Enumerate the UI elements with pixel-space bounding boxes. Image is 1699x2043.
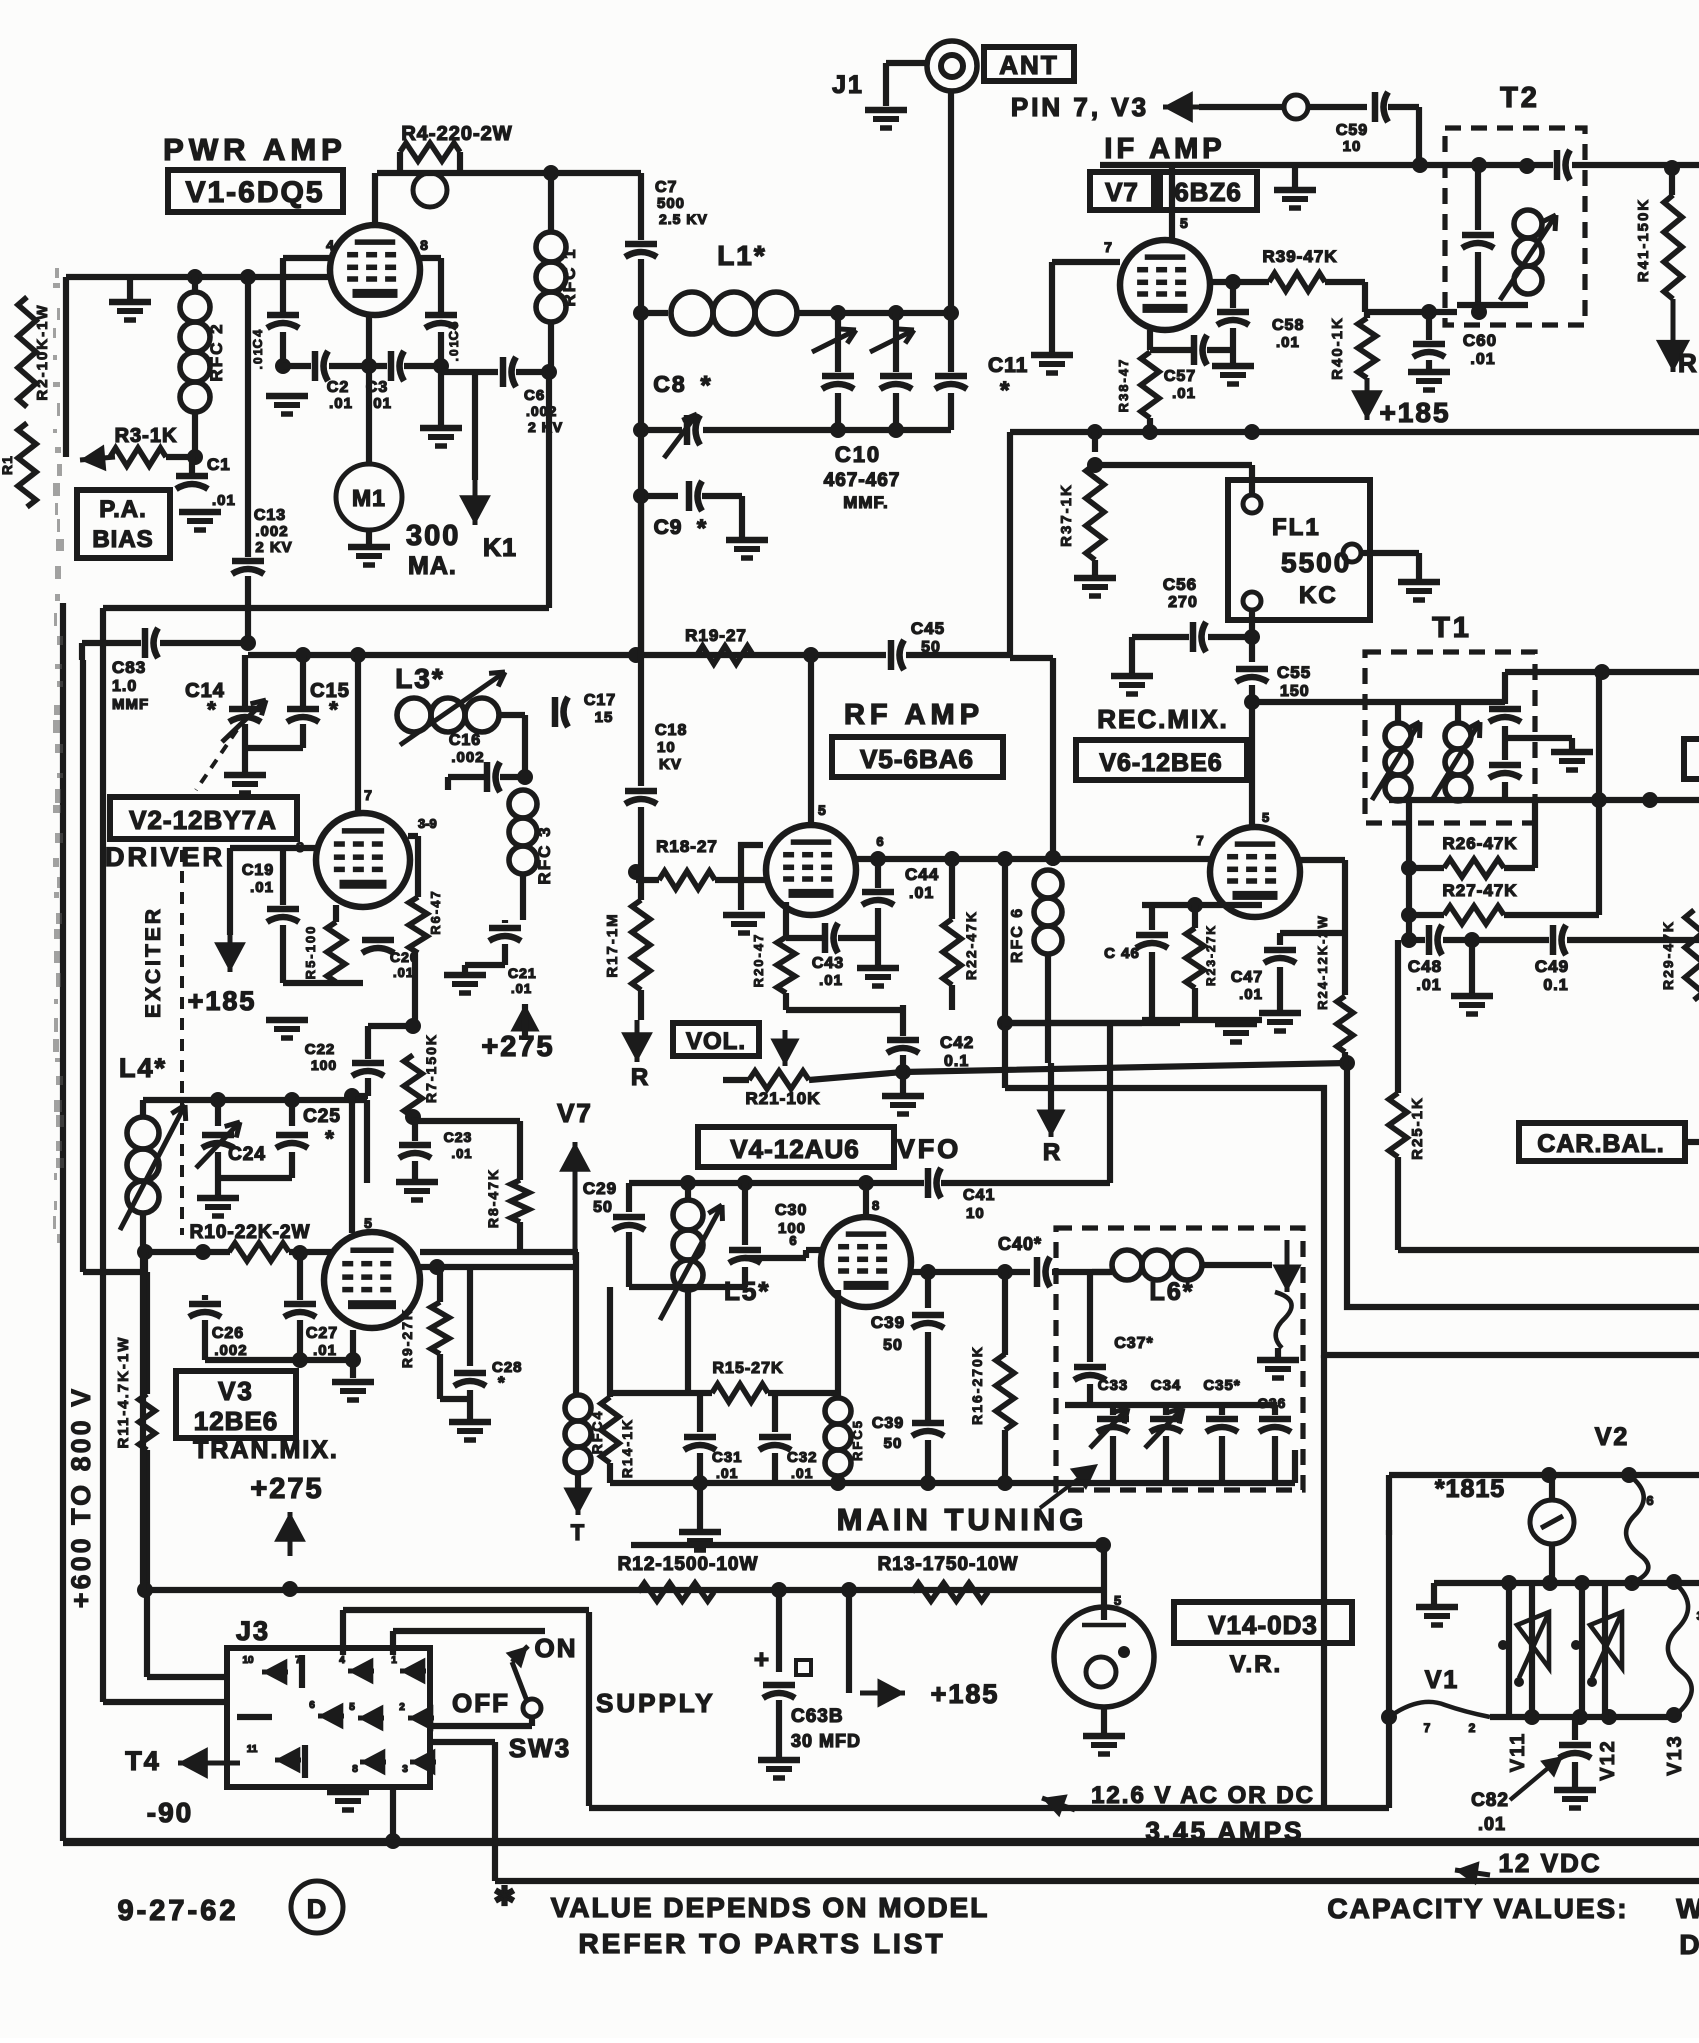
- svg-text:L1*: L1*: [717, 240, 767, 271]
- svg-text:V14-0D3: V14-0D3: [1208, 1610, 1318, 1640]
- svg-text:R14-1K: R14-1K: [619, 1418, 635, 1478]
- svg-text:*: *: [1000, 377, 1010, 404]
- svg-text:V11: V11: [1507, 1732, 1529, 1772]
- svg-text:C30: C30: [775, 1202, 807, 1219]
- svg-text:R11-4.7K-1W: R11-4.7K-1W: [115, 1336, 132, 1449]
- svg-text:VFO: VFO: [897, 1134, 962, 1164]
- svg-text:R10-22K-2W: R10-22K-2W: [190, 1222, 311, 1243]
- svg-text:ANT: ANT: [999, 50, 1058, 80]
- svg-text:9-27-62: 9-27-62: [118, 1895, 239, 1927]
- svg-text:C26: C26: [212, 1325, 244, 1342]
- svg-text:.01: .01: [1478, 1814, 1506, 1834]
- svg-text:R27-47K: R27-47K: [1442, 881, 1517, 900]
- svg-text:C48: C48: [1408, 957, 1442, 976]
- svg-text:.01: .01: [212, 492, 236, 509]
- svg-text:R24-12K-2W: R24-12K-2W: [1315, 914, 1330, 1010]
- svg-text:C5: C5: [446, 320, 461, 341]
- svg-text:.01: .01: [250, 879, 274, 896]
- svg-text:IF AMP: IF AMP: [1104, 133, 1225, 165]
- svg-text:C44: C44: [905, 865, 939, 884]
- svg-text:TRAN.MIX.: TRAN.MIX.: [193, 1436, 339, 1464]
- svg-text:K1: K1: [483, 534, 517, 562]
- svg-text:V4-12AU6: V4-12AU6: [730, 1134, 859, 1164]
- svg-text:R5-100: R5-100: [303, 925, 318, 980]
- svg-text:R3-1K: R3-1K: [115, 425, 178, 447]
- svg-text:R39-47K: R39-47K: [1262, 247, 1337, 266]
- svg-text:C2: C2: [327, 379, 349, 396]
- svg-text:*: *: [498, 1373, 506, 1392]
- svg-text:C4: C4: [250, 328, 265, 349]
- svg-text:V13: V13: [1664, 1734, 1686, 1776]
- svg-text:4: 4: [339, 1655, 345, 1666]
- svg-text:R: R: [1043, 1139, 1061, 1166]
- svg-text:5: 5: [349, 1702, 355, 1713]
- svg-text:C7: C7: [655, 179, 677, 196]
- svg-text:7: 7: [1196, 833, 1203, 848]
- svg-text:C63B: C63B: [791, 1706, 844, 1727]
- svg-text:R17-1M: R17-1M: [604, 912, 621, 977]
- svg-text:L3*: L3*: [395, 663, 445, 694]
- svg-text:C58: C58: [1272, 317, 1304, 334]
- svg-text:.01: .01: [1172, 385, 1196, 402]
- svg-text:2.5 KV: 2.5 KV: [659, 211, 708, 227]
- svg-text:50: 50: [593, 1199, 613, 1216]
- svg-text:R29-47K: R29-47K: [1660, 920, 1676, 990]
- svg-text:V2: V2: [1595, 1423, 1630, 1451]
- svg-text:.01: .01: [313, 1342, 337, 1359]
- svg-text:C33: C33: [1098, 1377, 1129, 1394]
- svg-text:R23-27K: R23-27K: [1204, 924, 1218, 986]
- svg-text:RFC 2: RFC 2: [207, 322, 226, 381]
- svg-text:*: *: [329, 697, 339, 722]
- svg-text:.01: .01: [393, 965, 414, 980]
- svg-text:C23: C23: [444, 1129, 473, 1145]
- svg-text:50: 50: [921, 639, 941, 656]
- svg-text:R19-27: R19-27: [685, 626, 747, 645]
- svg-text:R40-1K: R40-1K: [1329, 316, 1346, 380]
- svg-text:C31: C31: [712, 1449, 743, 1466]
- svg-text:CAPACITY VALUES:: CAPACITY VALUES:: [1327, 1893, 1628, 1924]
- svg-text:0.1: 0.1: [1543, 977, 1568, 994]
- svg-text:R2-10K-1W: R2-10K-1W: [34, 303, 51, 400]
- svg-text:MAIN TUNING: MAIN TUNING: [837, 1502, 1088, 1537]
- svg-text:J1: J1: [832, 71, 864, 99]
- svg-text:R13-1750-10W: R13-1750-10W: [878, 1554, 1019, 1575]
- svg-text:10: 10: [242, 1655, 254, 1666]
- svg-text:0.1: 0.1: [944, 1053, 969, 1070]
- svg-text:+: +: [754, 1644, 770, 1674]
- svg-text:+185: +185: [188, 986, 257, 1016]
- svg-text:30 MFD: 30 MFD: [791, 1731, 861, 1751]
- svg-text:50: 50: [883, 1337, 903, 1354]
- svg-text:11: 11: [247, 1744, 258, 1755]
- svg-text:CAR.BAL.: CAR.BAL.: [1537, 1130, 1664, 1158]
- svg-text:✱: ✱: [494, 1881, 517, 1911]
- svg-text:+185: +185: [1379, 397, 1450, 428]
- svg-text:C21: C21: [508, 965, 537, 981]
- svg-text:3: 3: [402, 1764, 408, 1775]
- svg-text:R15-27K: R15-27K: [712, 1360, 783, 1377]
- svg-text:R41-150K: R41-150K: [1635, 198, 1652, 282]
- svg-text:8: 8: [420, 237, 428, 253]
- svg-text:V1: V1: [1425, 1666, 1460, 1694]
- svg-text:L4*: L4*: [119, 1053, 167, 1083]
- svg-text:R20-47: R20-47: [751, 933, 766, 988]
- svg-text:C11: C11: [988, 354, 1028, 377]
- svg-text:5: 5: [364, 1215, 372, 1231]
- svg-text:C6: C6: [524, 387, 545, 404]
- svg-text:C8: C8: [653, 371, 686, 397]
- svg-text:7: 7: [1104, 239, 1112, 255]
- svg-text:C19: C19: [242, 862, 274, 879]
- svg-text:C39: C39: [872, 1415, 904, 1432]
- svg-text:R: R: [631, 1064, 649, 1091]
- svg-text:ON: ON: [535, 1633, 578, 1663]
- svg-text:467-467: 467-467: [824, 470, 901, 491]
- svg-text:R25-1K: R25-1K: [1409, 1096, 1426, 1160]
- svg-text:3-9: 3-9: [418, 816, 437, 831]
- svg-text:C60: C60: [1463, 331, 1497, 350]
- svg-text:VOL.: VOL.: [686, 1028, 746, 1055]
- svg-text:C13: C13: [254, 507, 286, 524]
- svg-text:C32: C32: [787, 1449, 818, 1466]
- svg-text:RFC 6: RFC 6: [1009, 907, 1026, 963]
- svg-text:C82: C82: [1471, 1790, 1509, 1811]
- svg-text:300: 300: [406, 520, 460, 552]
- svg-text:MMF.: MMF.: [843, 493, 889, 512]
- svg-text:RFC5: RFC5: [850, 1419, 865, 1461]
- svg-text:5500: 5500: [1281, 547, 1351, 578]
- svg-text:3.45 AMPS: 3.45 AMPS: [1146, 1816, 1305, 1846]
- svg-text:RFC 1: RFC 1: [560, 247, 579, 306]
- svg-text:*: *: [700, 370, 711, 400]
- svg-text:.01: .01: [716, 1465, 738, 1481]
- svg-text:REFER TO PARTS LIST: REFER TO PARTS LIST: [578, 1928, 945, 1959]
- svg-text:C28: C28: [492, 1359, 523, 1376]
- svg-text:6: 6: [789, 1233, 796, 1248]
- svg-text:C 46: C 46: [1104, 945, 1140, 962]
- svg-text:.01: .01: [819, 972, 843, 989]
- svg-text:.01: .01: [1470, 351, 1495, 368]
- svg-text:R12-1500-10W: R12-1500-10W: [618, 1554, 759, 1575]
- svg-text:C18: C18: [655, 722, 687, 739]
- svg-text:4: 4: [326, 237, 334, 253]
- svg-text:C29: C29: [583, 1179, 617, 1198]
- svg-text:V2-12BY7A: V2-12BY7A: [129, 805, 277, 835]
- svg-text:C3: C3: [366, 379, 388, 396]
- svg-text:V6-12BE6: V6-12BE6: [1099, 749, 1222, 777]
- svg-text:10: 10: [966, 1205, 985, 1222]
- svg-text:.01: .01: [451, 1146, 472, 1161]
- svg-text:L6*: L6*: [1150, 1278, 1195, 1306]
- svg-text:C34: C34: [1151, 1377, 1182, 1394]
- svg-text:+600 TO 800 V: +600 TO 800 V: [66, 1386, 96, 1608]
- svg-text:*: *: [207, 697, 217, 722]
- svg-text:270: 270: [1168, 594, 1198, 611]
- svg-text:V7: V7: [1105, 177, 1139, 207]
- svg-text:2: 2: [399, 1702, 405, 1713]
- svg-text:V.R.: V.R.: [1230, 1651, 1282, 1678]
- svg-text:+275: +275: [481, 1031, 554, 1063]
- svg-text:C37*: C37*: [1114, 1335, 1154, 1352]
- svg-text:V1-6DQ5: V1-6DQ5: [185, 176, 324, 209]
- svg-text:.01: .01: [447, 339, 461, 362]
- svg-text:FL1: FL1: [1272, 514, 1321, 541]
- svg-text:1: 1: [391, 1655, 397, 1666]
- svg-text:5: 5: [1114, 1593, 1121, 1608]
- svg-text:DRIVER: DRIVER: [105, 842, 225, 872]
- svg-text:5: 5: [818, 802, 826, 818]
- svg-text:OFF: OFF: [452, 1688, 510, 1718]
- svg-text:R6-47: R6-47: [428, 889, 443, 934]
- svg-text:500: 500: [657, 195, 685, 212]
- svg-text:T2: T2: [1500, 82, 1540, 114]
- svg-text:C9: C9: [654, 516, 683, 539]
- svg-text:R38-47: R38-47: [1116, 358, 1131, 413]
- svg-text:C25: C25: [303, 1106, 341, 1127]
- svg-text:D: D: [307, 1894, 328, 1924]
- svg-text:12BE6: 12BE6: [194, 1406, 279, 1436]
- svg-text:.01: .01: [329, 395, 353, 412]
- svg-text:R16-270K: R16-270K: [969, 1345, 985, 1425]
- svg-text:.01: .01: [1239, 986, 1263, 1003]
- svg-text:.01: .01: [251, 347, 265, 370]
- svg-text:PWR AMP: PWR AMP: [163, 132, 347, 167]
- svg-text:6: 6: [1646, 1493, 1653, 1508]
- svg-text:7: 7: [364, 787, 372, 803]
- svg-text:.01: .01: [511, 981, 532, 996]
- svg-text:6BZ6: 6BZ6: [1174, 177, 1242, 207]
- svg-text:D: D: [1679, 1929, 1699, 1960]
- svg-text:V5-6BA6: V5-6BA6: [860, 744, 974, 774]
- svg-text:R18-27: R18-27: [656, 837, 718, 856]
- svg-text:R21-10K: R21-10K: [745, 1089, 820, 1108]
- svg-text:C14: C14: [185, 680, 225, 702]
- svg-text:C1: C1: [207, 455, 231, 474]
- svg-text:5: 5: [1180, 215, 1188, 231]
- svg-text:8: 8: [872, 1198, 879, 1213]
- svg-text:+275: +275: [250, 1473, 323, 1505]
- svg-text:15: 15: [595, 709, 614, 726]
- svg-text:C24: C24: [228, 1144, 266, 1165]
- svg-text:T: T: [571, 1520, 585, 1545]
- svg-text:C56: C56: [1163, 575, 1197, 594]
- svg-text:C49: C49: [1535, 957, 1569, 976]
- svg-text:P.A.: P.A.: [99, 496, 147, 523]
- svg-text:C22: C22: [305, 1041, 336, 1058]
- svg-text:C39: C39: [871, 1313, 905, 1332]
- svg-text:10: 10: [1343, 138, 1362, 155]
- svg-text:*: *: [697, 515, 707, 542]
- svg-text:7: 7: [1424, 1721, 1431, 1735]
- svg-text:.01: .01: [1416, 977, 1441, 994]
- svg-text:.002: .002: [214, 1342, 247, 1359]
- svg-text:V7: V7: [557, 1098, 593, 1128]
- svg-text:EXCITER: EXCITER: [142, 906, 165, 1018]
- svg-text:12 VDC: 12 VDC: [1498, 1848, 1601, 1878]
- svg-text:C47: C47: [1231, 969, 1263, 986]
- svg-text:7: 7: [295, 1655, 301, 1666]
- svg-text:150: 150: [1280, 683, 1310, 700]
- svg-text:R37-1K: R37-1K: [1058, 483, 1075, 547]
- svg-text:C17: C17: [584, 692, 616, 709]
- svg-text:C35*: C35*: [1203, 1377, 1240, 1394]
- svg-text:5: 5: [1262, 810, 1269, 825]
- svg-text:R7-150K: R7-150K: [423, 1033, 439, 1103]
- svg-text:C42: C42: [940, 1033, 974, 1052]
- svg-text:C55: C55: [1277, 663, 1311, 682]
- svg-text:C40*: C40*: [998, 1234, 1042, 1254]
- svg-text:*: *: [325, 1126, 335, 1151]
- svg-text:T4: T4: [125, 1746, 161, 1776]
- svg-text:V12: V12: [1597, 1739, 1619, 1781]
- svg-text:12.6 V AC OR DC: 12.6 V AC OR DC: [1091, 1782, 1315, 1809]
- svg-text:BIAS: BIAS: [92, 526, 153, 553]
- svg-text:V3: V3: [218, 1376, 254, 1406]
- svg-text:100: 100: [311, 1057, 337, 1073]
- svg-text:.01: .01: [1276, 334, 1300, 351]
- svg-text:.01: .01: [909, 885, 934, 902]
- svg-text:C27: C27: [306, 1325, 338, 1342]
- svg-text:10: 10: [657, 739, 676, 756]
- svg-text:R: R: [1678, 348, 1698, 378]
- svg-text:C45: C45: [911, 619, 945, 638]
- svg-text:MMF: MMF: [112, 696, 149, 713]
- svg-text:C43: C43: [812, 955, 844, 972]
- svg-text:.01: .01: [368, 395, 392, 412]
- svg-text:.002: .002: [255, 523, 288, 540]
- svg-text:KC: KC: [1299, 582, 1338, 609]
- svg-text:MA.: MA.: [408, 552, 457, 580]
- svg-text:.002: .002: [451, 749, 484, 766]
- svg-text:R22-47K: R22-47K: [963, 910, 979, 980]
- svg-text:2: 2: [1469, 1721, 1476, 1735]
- svg-text:R26-47K: R26-47K: [1442, 834, 1517, 853]
- svg-text:C83: C83: [112, 658, 146, 677]
- svg-text:R9-27K: R9-27K: [399, 1308, 415, 1368]
- svg-text:C10: C10: [835, 442, 881, 467]
- svg-text:SUPPLY: SUPPLY: [596, 1688, 716, 1718]
- svg-text:VALUE DEPENDS ON MODEL: VALUE DEPENDS ON MODEL: [551, 1892, 990, 1923]
- svg-text:SW3: SW3: [509, 1733, 571, 1763]
- svg-text:RFC 3: RFC 3: [535, 825, 554, 884]
- svg-text:2 KV: 2 KV: [255, 539, 292, 556]
- svg-text:C59: C59: [1336, 122, 1368, 139]
- svg-text:1.0: 1.0: [112, 678, 137, 695]
- svg-text:PIN 7, V3: PIN 7, V3: [1011, 92, 1149, 122]
- svg-text:C57: C57: [1164, 368, 1196, 385]
- svg-text:2 KV: 2 KV: [528, 419, 563, 435]
- svg-text:KV: KV: [659, 756, 682, 773]
- svg-text:+185: +185: [931, 1679, 1000, 1709]
- svg-text:6: 6: [876, 834, 883, 849]
- svg-text:*1815: *1815: [1435, 1475, 1505, 1503]
- svg-text:R4-220-2W: R4-220-2W: [401, 123, 512, 145]
- svg-text:6: 6: [309, 1700, 315, 1711]
- svg-text:RF AMP: RF AMP: [844, 699, 984, 731]
- svg-text:C41: C41: [963, 1187, 995, 1204]
- svg-text:R8-47K: R8-47K: [485, 1168, 501, 1228]
- svg-text:M1: M1: [352, 485, 386, 511]
- svg-text:REC.MIX.: REC.MIX.: [1097, 704, 1229, 734]
- svg-text:50: 50: [884, 1435, 903, 1452]
- svg-text:R1: R1: [0, 455, 15, 475]
- svg-text:W: W: [1676, 1893, 1699, 1924]
- svg-text:-90: -90: [147, 1797, 193, 1828]
- svg-text:J3: J3: [236, 1616, 270, 1646]
- svg-text:.002: .002: [526, 403, 557, 419]
- svg-text:8: 8: [352, 1764, 358, 1775]
- svg-text:T1: T1: [1432, 612, 1472, 644]
- svg-text:.01: .01: [791, 1465, 813, 1481]
- svg-text:C16: C16: [449, 732, 481, 749]
